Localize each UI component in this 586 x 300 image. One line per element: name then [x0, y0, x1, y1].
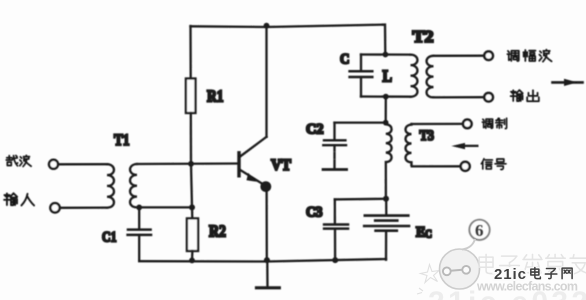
svg-text:C2: C2 [306, 122, 324, 138]
wire: T2 secondary bottom to output terminal [434, 96, 485, 99]
wire: input bottom to T1 primary [60, 206, 107, 208]
wire: T1 secondary top to base of VT [137, 162, 238, 165]
transformer T3 secondary winding [406, 124, 412, 165]
watermark ghost CJK characters [479, 254, 586, 274]
transformer T1 secondary winding [130, 164, 137, 207]
junction: R2 top node [189, 204, 195, 210]
capacitor C3 [324, 199, 348, 260]
svg-text:6: 6 [475, 221, 484, 240]
capacitor C (tank) [350, 55, 373, 97]
ground [257, 260, 280, 288]
figure number 6 (circled) [469, 220, 489, 240]
label "出" (output char 2) [527, 90, 539, 101]
label "入" (input char 2) [21, 194, 34, 206]
svg-text:T2: T2 [413, 27, 434, 46]
svg-text:VT: VT [271, 157, 291, 174]
svg-text:C1: C1 [102, 230, 117, 246]
junction: C2 node [383, 120, 389, 126]
svg-text:21ic.e032: 21ic.e032 [428, 286, 586, 300]
junction: rail to tank top [383, 52, 389, 58]
label "制" (modulation char 2) [496, 118, 507, 128]
svg-text:T1: T1 [114, 132, 130, 149]
svg-text:L: L [383, 67, 393, 86]
label "波" (wave) [20, 155, 31, 166]
watermark logo circle [440, 239, 480, 289]
capacitor C2 [323, 123, 347, 170]
svg-text:T3: T3 [420, 128, 435, 144]
wire: tank bottom to C2 node [385, 97, 387, 123]
CJK text labels (hand-drawn glyphs) [4, 50, 551, 206]
transformer T3 primary winding [386, 123, 392, 199]
wire: collector to top rail [265, 26, 267, 137]
transformer T1 primary winding [107, 164, 114, 207]
terminal: carrier input top [49, 160, 58, 169]
label "输" (input char 1) [4, 193, 17, 205]
label "信" (signal char 1) [481, 159, 492, 169]
junction: T1 secondary bottom / C1 [136, 205, 142, 211]
svg-text:R1: R1 [207, 87, 224, 106]
battery Ec [364, 199, 409, 260]
resistor R2 [187, 207, 198, 260]
wire: input top to T1 primary [58, 163, 107, 165]
wire: top supply rail [191, 25, 386, 55]
label "调" (modulation char 1) [482, 119, 492, 128]
wire: T3 secondary top to modulation terminal [412, 123, 464, 125]
junction: tank bottom node [383, 94, 389, 100]
wire: base bias node (R1 bottom to R2 top) [191, 164, 192, 208]
transistor VT [239, 137, 271, 192]
junction: R2 bottom at ground rail [189, 258, 195, 264]
watermark sparkle star [417, 265, 439, 295]
wire: T1 secondary bottom to R2 top [139, 206, 192, 208]
label "号" (signal char 2) [495, 159, 506, 170]
junction: collector to top rail [264, 23, 270, 29]
terminal: carrier input bottom [50, 203, 59, 212]
wire: emitter to ground rail [265, 189, 267, 260]
watermark dark site name "21ic电子网" [494, 266, 572, 283]
junction: battery top node [383, 196, 389, 202]
wire: T3 secondary bottom to signal terminal [412, 165, 461, 166]
wire: ground rail (bottom) [139, 259, 386, 262]
svg-text:C: C [340, 52, 350, 68]
arrow: output direction [553, 79, 583, 86]
resistor R1 [186, 26, 196, 164]
terminal: AM wave output top [484, 51, 493, 60]
inductor L (tank / T2 primary) [411, 55, 418, 97]
terminal: modulation input bottom [461, 162, 470, 171]
svg-text:R2: R2 [209, 222, 226, 241]
arrow: modulation input direction [451, 143, 477, 149]
watermark group [417, 239, 586, 300]
transformer T2 secondary winding [427, 56, 434, 98]
junction: C3 at ground rail [332, 257, 338, 263]
wire: C3 branch [335, 198, 386, 201]
LC tank top wire [361, 53, 411, 55]
junction: emitter at ground rail [264, 257, 270, 263]
wire: T2 secondary top to output terminal [434, 55, 485, 57]
junction: base node [188, 161, 194, 167]
label "输" (output char 1) [511, 90, 523, 101]
LC tank bottom wire [361, 95, 411, 97]
svg-text:C3: C3 [306, 205, 323, 221]
label "调" (AM out char 1) [507, 51, 518, 61]
terminal: AM wave output bottom [484, 93, 493, 102]
svg-text:C: C [425, 228, 432, 240]
capacitor C1 [128, 207, 151, 260]
terminal: modulation input top [463, 120, 472, 129]
label "载" (carrier) [6, 156, 17, 166]
wire: C2 branch [335, 121, 386, 123]
label "幅" (AM out char 2) [523, 50, 535, 61]
label "波" (AM out char 3) [539, 50, 551, 62]
